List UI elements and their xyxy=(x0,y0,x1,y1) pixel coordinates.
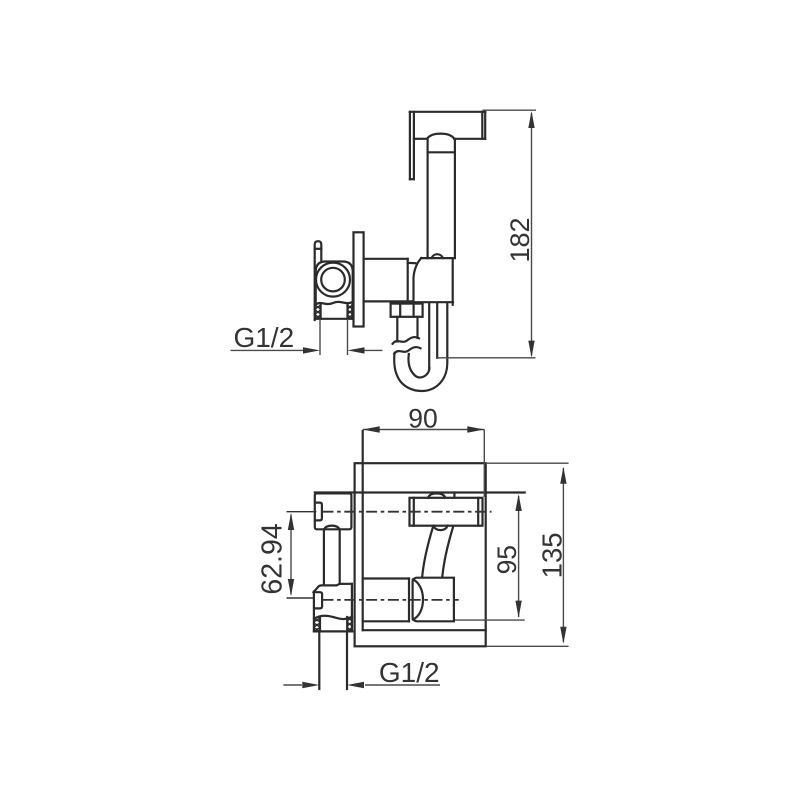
svg-text:95: 95 xyxy=(492,545,522,574)
svg-text:182: 182 xyxy=(505,217,535,262)
svg-text:G1/2: G1/2 xyxy=(233,322,294,353)
svg-text:90: 90 xyxy=(408,404,437,434)
svg-text:62.94: 62.94 xyxy=(257,523,289,594)
svg-text:G1/2: G1/2 xyxy=(379,657,440,688)
svg-text:135: 135 xyxy=(537,532,568,578)
